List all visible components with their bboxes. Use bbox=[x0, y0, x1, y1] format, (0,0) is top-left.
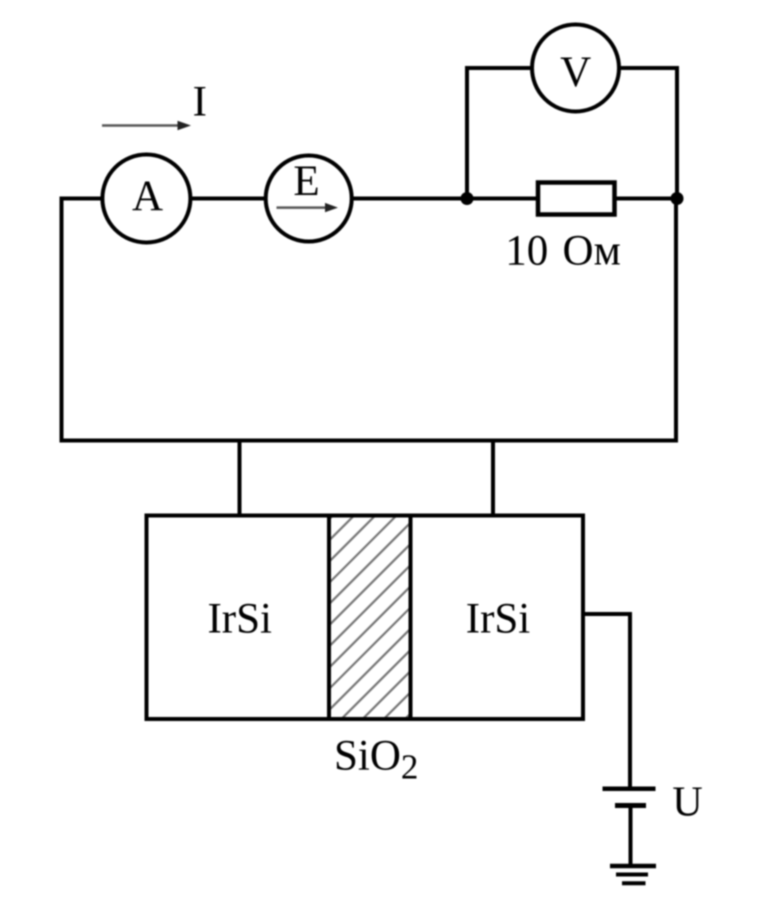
svg-text:IrSi: IrSi bbox=[207, 595, 272, 642]
svg-text:10 Ом: 10 Ом bbox=[505, 227, 621, 274]
svg-text:E: E bbox=[293, 158, 319, 205]
svg-text:V: V bbox=[560, 49, 591, 96]
svg-text:U: U bbox=[672, 780, 702, 826]
svg-text:IrSi: IrSi bbox=[466, 595, 531, 642]
svg-text:I: I bbox=[193, 79, 207, 126]
svg-text:A: A bbox=[132, 173, 163, 220]
